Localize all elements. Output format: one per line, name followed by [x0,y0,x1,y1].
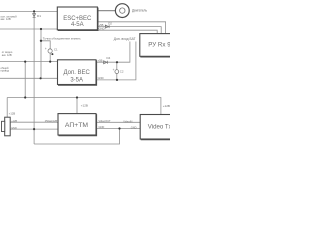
svg-text:Доп. вход БАТ: Доп. вход БАТ [114,37,136,41]
svg-text:РУ Rx 9: РУ Rx 9 [148,42,170,49]
wire AP+TM gnd to Video Tx [96,128,140,130]
svg-text:GND: GND [99,27,105,31]
wire Dop.BEC GND out with stub up to BAT label [96,42,136,80]
box Video Tx U5 [140,115,171,140]
box Dop.BEC U2 [58,60,97,85]
node dot ground join point [40,40,42,42]
svg-text:GND: GND [99,125,105,129]
wire battery GND to AP+TM [10,128,58,130]
wire ground join to C1 [41,41,50,49]
svg-text:VideoOUT: VideoOUT [99,119,111,123]
wire AP+TM +12 top pin [76,98,78,114]
node dot rail/D1 [33,10,35,12]
node dot C1 bottom [49,61,51,63]
svg-text:GND: GND [131,125,137,129]
svg-text:VideoIN: VideoIN [123,120,132,124]
svg-text:D2: D2 [108,22,112,26]
node dot gnd wire y78 [40,77,42,79]
svg-text:Video Tx: Video Tx [148,124,170,131]
svg-text:акк. 12В: акк. 12В [1,17,11,21]
svg-text:+: + [45,47,47,51]
svg-text:провод: провод [1,70,10,73]
wire AP+TM video out to Video Tx [96,121,140,123]
node dot bridge top [24,61,26,63]
svg-text:Двигатель: Двигатель [132,9,147,13]
svg-text:3-5А: 3-5А [70,78,83,84]
node dot C2 bottom [116,79,118,81]
svg-text:C2: C2 [120,70,124,74]
wire ESC ground left [0,28,57,30]
svg-text:+12В: +12В [11,120,17,123]
node dot bus AP+TM [76,96,78,98]
wire C2 bottom lead [116,74,118,80]
svg-text:Точка объединения земель: Точка объединения земель [43,36,81,40]
svg-text:акк. 12В: акк. 12В [2,53,12,57]
svg-text:+12В: +12В [9,111,16,115]
battery connector X1 [2,117,11,136]
wire Dop.BEC +5V out with stub up to BAT label [96,42,130,63]
svg-text:+5В: +5В [99,23,104,27]
svg-text:C1: C1 [54,48,58,52]
wire ESC signal to RU Rx [97,22,165,34]
node dot video gnd [118,127,120,129]
svg-text:D4: D4 [107,56,111,60]
svg-text:250мА(12В): 250мА(12В) [45,120,58,123]
box RU Rx receiver U3 [140,34,172,57]
node dot ESC gnd branch [40,28,42,30]
svg-text:4-5А: 4-5А [71,22,84,28]
box AP+TM U4 [58,114,97,136]
wire bottom ground loop [34,129,119,145]
wire +12V rail top [0,10,57,12]
diode D4 [104,61,108,64]
svg-text:+12В: +12В [81,103,88,107]
wire ESC to motor [97,10,115,12]
wire C1 bottom lead [49,53,51,62]
wire ESC GND to RU Rx [97,30,157,33]
wire C2 top lead [116,62,118,69]
wire vertical from ESC ground to ground join [40,29,42,78]
wire +12V input to Dop.BEC [0,61,58,63]
svg-text:+5В: +5В [98,59,103,63]
wire ESC +5V to RU Rx [97,27,161,34]
diode D2 [105,25,109,28]
svg-text:D1: D1 [37,14,41,18]
node dot C2 top [116,61,118,63]
diode D1 [33,14,36,18]
wire battery +12 to AP+TM [10,121,58,123]
wire vertical bridge x=25.8 [24,62,26,98]
wire GND input to Dop.BEC [0,77,58,79]
wire +12V bottom bus to Video Tx [7,98,161,115]
svg-text:GND: GND [11,127,17,130]
node dot bridge bottom [24,96,26,98]
node dot battery gnd [33,128,35,130]
capacitor C2 [115,70,119,74]
svg-text:АП+ТМ: АП+ТМ [65,122,88,129]
svg-text:Доп. ВЕС: Доп. ВЕС [64,70,91,76]
wire vertical D1 branch / main GND drop [33,11,35,144]
svg-text:+: + [113,68,115,72]
wire battery riser [6,98,8,118]
box ESC+BEC U1 [57,7,98,31]
motor M1 [115,4,147,18]
svg-text:GND: GND [98,76,104,80]
capacitor C1 [48,49,53,55]
svg-text:+12В: +12В [163,104,170,108]
